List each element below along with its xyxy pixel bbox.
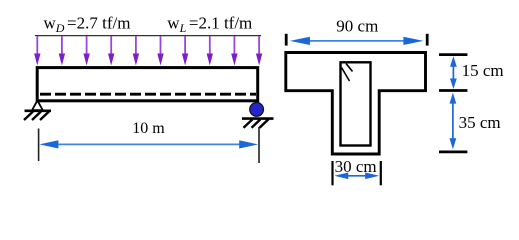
left support hatch strokes — [24, 112, 49, 121]
inner break mark lower — [342, 68, 350, 82]
left pin support triangle — [32, 101, 43, 111]
load arrow 7 — [182, 36, 188, 66]
flange width left tick — [285, 34, 288, 46]
web inner rectangle — [341, 62, 371, 145]
left support hatch base line — [25, 110, 52, 113]
flange width dimension line — [306, 40, 408, 42]
web width left extension bar — [331, 161, 333, 185]
span dimension right arrowhead — [239, 140, 258, 148]
svg-text:10 m: 10 m — [132, 120, 165, 137]
span dimension left extension line — [38, 129, 40, 162]
flange width right tick — [426, 34, 429, 46]
load arrow 8 — [207, 36, 213, 66]
svg-text:wD=2.7 tf/m: wD=2.7 tf/m — [44, 14, 131, 35]
load arrow 9 — [231, 36, 237, 66]
svg-text:30 cm: 30 cm — [335, 157, 377, 176]
inner break mark upper — [346, 64, 353, 72]
web width right extension bar — [380, 161, 382, 185]
svg-text:35 cm: 35 cm — [459, 113, 501, 132]
web width dimension double arrow — [334, 173, 379, 180]
flange depth bottom tick — [439, 89, 467, 92]
load arrow 4 — [108, 36, 114, 66]
web depth bottom tick — [439, 150, 467, 153]
flange depth dimension double arrow — [450, 56, 457, 89]
span dimension right extension line — [258, 127, 260, 163]
web depth dimension double arrow — [450, 93, 457, 150]
load arrow 10 — [256, 36, 262, 66]
right support hatch base line — [242, 117, 274, 120]
svg-text:wL=2.1 tf/m: wL=2.1 tf/m — [167, 14, 252, 35]
svg-text:90 cm: 90 cm — [336, 16, 378, 35]
load arrow 3 — [83, 36, 89, 66]
beam outline — [37, 68, 258, 101]
load arrow 5 — [133, 36, 139, 66]
svg-text:15 cm: 15 cm — [462, 61, 504, 80]
load arrow 2 — [59, 36, 65, 66]
flange width right arrowhead — [403, 37, 423, 45]
load arrow 6 — [157, 36, 163, 66]
right roller support circle — [250, 103, 264, 117]
distributed load top line — [35, 35, 261, 37]
span dimension line — [56, 143, 240, 145]
span dimension left arrowhead — [39, 140, 58, 148]
flange depth top tick — [439, 53, 467, 56]
flange width left arrowhead — [290, 37, 310, 45]
right support hatch strokes — [244, 119, 269, 128]
beam dashed centroid line — [40, 93, 256, 96]
T-section outline — [286, 53, 426, 155]
load arrow 1 — [34, 36, 40, 66]
